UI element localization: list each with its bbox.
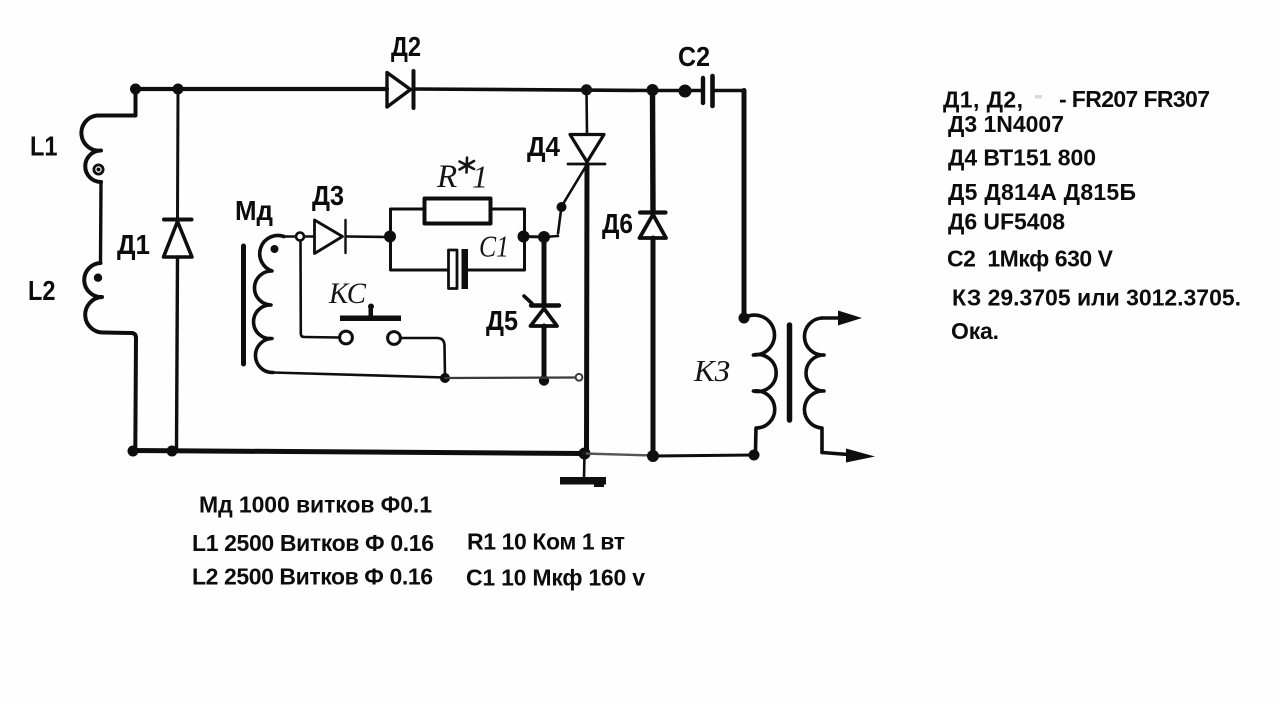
svg-text:C1: C1 [479, 229, 509, 264]
svg-text:Д1, Д2,: Д1, Д2, [943, 87, 1023, 113]
svg-text:Д5 Д814А Д815Б: Д5 Д814А Д815Б [948, 179, 1136, 205]
wire KC right to bottom rail [401, 338, 446, 378]
node ground junction [579, 448, 591, 460]
wire bottom rail gray segment [584, 454, 653, 456]
node junction D1 top [173, 84, 184, 95]
capacitor C2 [703, 76, 744, 106]
svg-text:КЗ: КЗ [693, 353, 730, 388]
svg-text:КЗ 29.3705 или 3012.3705.: КЗ 29.3705 или 3012.3705. [952, 285, 1241, 311]
wire secondary top with arrow [822, 316, 840, 319]
svg-text:L1: L1 [30, 131, 58, 162]
note parts list right [943, 86, 1241, 344]
node D5 bottom [539, 375, 549, 385]
wire Md top to D3 [283, 235, 296, 238]
svg-text:R1 10 Ком 1 вт: R1 10 Ком 1 вт [467, 529, 625, 555]
diode D6 [640, 90, 667, 456]
wire node to gate-dot branch [524, 235, 545, 239]
transformer Md core [241, 246, 246, 364]
wire secondary bottom with arrow [822, 453, 848, 455]
wire right vertical from C2 to K3 [742, 91, 747, 319]
node D6 bottom [647, 450, 659, 462]
wire Md top branch down to KC [301, 241, 340, 338]
svg-text:Д3: Д3 [312, 180, 344, 211]
node junction D4 top [581, 84, 592, 95]
wire bottom rail [133, 451, 585, 454]
wire bottom rail to K3 [653, 455, 754, 456]
wire top bus to C2 [652, 89, 701, 92]
resistor R1 parallel box [391, 199, 525, 271]
node junction top-left [130, 84, 141, 95]
svg-text:Д4: Д4 [527, 131, 560, 162]
svg-text:Д4 ВТ151 800: Д4 ВТ151 800 [948, 145, 1096, 171]
svg-text:Д6 UF5408: Д6 UF5408 [948, 209, 1065, 235]
diode D3 [296, 220, 385, 254]
node K3 primary top [739, 313, 750, 324]
wire Md bottom horizontal [273, 373, 445, 378]
thyristor D4 [544, 90, 605, 237]
node left of R1C1 [384, 231, 396, 243]
inductor L1 [81, 89, 135, 182]
wire L1-L2 [99, 182, 103, 263]
svg-text:Д3 1N4007: Д3 1N4007 [948, 111, 1064, 137]
node junction C2 left [679, 85, 692, 98]
zener diode D5 [524, 237, 559, 380]
svg-text:КС: КС [328, 277, 367, 310]
svg-text:Д2: Д2 [391, 31, 421, 62]
svg-text:C2 1Мкф 630 V: C2 1Мкф 630 V [947, 246, 1114, 272]
node K3 primary bottom [749, 450, 760, 461]
node KC/Md bottom [440, 373, 450, 383]
svg-text:Мд 1000 витков Ф0.1: Мд 1000 витков Ф0.1 [199, 491, 432, 517]
node bottom-left [128, 446, 139, 457]
svg-text:Д1: Д1 [117, 229, 150, 260]
diode D2 [387, 71, 414, 108]
terminal circle L1 bottom [94, 165, 103, 174]
capacitor C1 [449, 249, 469, 289]
polarity dot Md [271, 245, 279, 253]
wire top bus [135, 87, 387, 91]
svg-text:Ока.: Ока. [951, 318, 999, 344]
svg-text:L1 2500 Витков Ф 0.16: L1 2500 Витков Ф 0.16 [192, 530, 434, 556]
node right of R1C1 [518, 231, 530, 243]
node D4 gate wire [538, 231, 550, 243]
transformer core K3 [787, 325, 793, 420]
svg-text:C1 10 Мкф 160 v: C1 10 Мкф 160 v [466, 565, 645, 591]
svg-text:1: 1 [472, 159, 488, 195]
wire main vertical below D4 [584, 164, 590, 454]
wire to main vertical with small circle [445, 376, 575, 379]
relay coil K3 primary winding [744, 315, 776, 450]
svg-text:Мд: Мд [235, 195, 273, 226]
svg-text:Д6: Д6 [602, 208, 633, 239]
svg-text:L2 2500 Витков Ф 0.16: L2 2500 Витков Ф 0.16 [192, 564, 433, 590]
svg-text:- FR207 FR307: - FR207 FR307 [1059, 86, 1210, 112]
push button KC [340, 304, 401, 345]
node junction D6 top [647, 84, 659, 96]
diode D1 [164, 89, 193, 450]
node D1 bottom [167, 446, 178, 457]
svg-text:L2: L2 [28, 275, 56, 306]
relay K3 secondary winding [804, 318, 824, 453]
svg-text:R: R [436, 159, 457, 195]
inductor L2 [84, 263, 136, 450]
wire top bus right of D2 [414, 89, 652, 91]
ground [560, 454, 606, 488]
transformer Md winding [254, 235, 284, 372]
terminal dot L2 top [94, 274, 102, 282]
note winding data bottom [192, 491, 645, 590]
svg-text:Д5: Д5 [486, 305, 518, 336]
svg-text:C2: C2 [678, 41, 710, 72]
